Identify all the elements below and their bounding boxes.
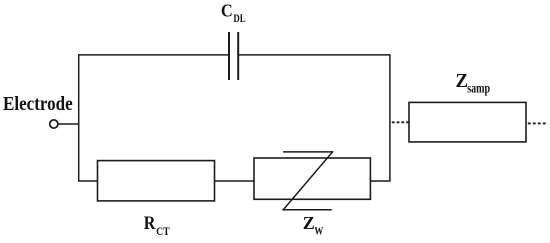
svg-text:CT: CT	[156, 226, 169, 238]
svg-text:Z: Z	[303, 213, 315, 233]
svg-text:DL: DL	[233, 13, 245, 25]
svg-text:R: R	[144, 212, 156, 234]
svg-text:C: C	[221, 0, 233, 21]
svg-text:W: W	[314, 226, 323, 238]
svg-text:samp: samp	[467, 80, 490, 96]
svg-text:Z: Z	[456, 70, 469, 92]
svg-text:Electrode: Electrode	[3, 93, 73, 116]
